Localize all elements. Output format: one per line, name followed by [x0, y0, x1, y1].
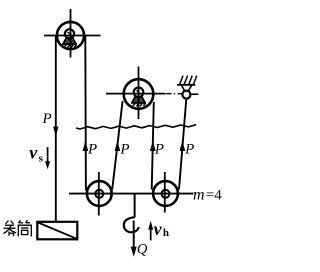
svg-text:v: v: [29, 142, 38, 162]
svg-text:P: P: [184, 142, 194, 158]
pulley D vertical centerline: [164, 172, 166, 213]
force P arrow on drum rope (down): [53, 127, 58, 137]
pulley C hub: [95, 190, 103, 198]
pulley A outer wheel (top-left fixed pulley): [57, 22, 84, 49]
wire: rope 2: [112, 101, 122, 190]
svg-text:P: P: [119, 142, 129, 158]
pulley A centerlines (top-left fixed pulley crosshair): [44, 9, 101, 58]
svg-text:h: h: [163, 227, 169, 239]
svg-text:P: P: [42, 111, 52, 127]
label Q: [137, 242, 148, 258]
tension arrow on rope 2 (up): [115, 141, 121, 152]
label m=4: [193, 186, 222, 203]
velocity v_h arrow: [148, 221, 153, 241]
pulley D outer wheel (bottom-right movable pulley): [153, 181, 178, 206]
label 卷 (hand-drawn strokes): [4, 221, 17, 237]
svg-text:Q: Q: [137, 242, 148, 258]
velocity v_s arrow: [45, 147, 50, 169]
tension arrow on rope 4 (up): [180, 141, 186, 152]
svg-text:P: P: [87, 142, 97, 158]
pulley B outer wheel (middle fixed pulley): [124, 79, 154, 109]
svg-text:=4: =4: [206, 187, 222, 203]
svg-text:P: P: [154, 142, 164, 158]
label P (rope 2): [119, 142, 129, 158]
label P (rope 3): [154, 142, 164, 158]
pulley B hub: [134, 88, 144, 98]
dash-dot centerline between pulley B and anchor: [166, 93, 183, 95]
winding drum rectangle: [37, 222, 77, 240]
tension arrow on rope 3 (up): [150, 141, 156, 152]
pulley B centerlines (middle fixed pulley crosshair): [106, 67, 165, 120]
anchor hatching (fixed support, top-right): [180, 76, 197, 85]
label P (rope 1): [87, 142, 97, 158]
wire: rope 3: [152, 102, 154, 190]
pulley C outer wheel (bottom-left movable pulley): [87, 181, 112, 206]
anchor right tick: [191, 93, 199, 95]
label 筒 (hand-drawn strokes): [18, 220, 31, 236]
wire: rope 4: [179, 99, 186, 190]
water surface wavy line: [76, 125, 196, 129]
svg-text:m: m: [193, 186, 205, 203]
svg-text:v: v: [154, 219, 163, 239]
force Q arrow: [131, 221, 137, 257]
hook hanger line: [134, 194, 136, 218]
hook: [124, 217, 139, 232]
anchor bar: [177, 84, 195, 86]
anchor eye circle: [182, 91, 190, 99]
label P (drum rope): [42, 111, 52, 127]
label P (rope 4): [184, 142, 194, 158]
label v_h: [154, 219, 169, 239]
pulley D hub: [162, 190, 170, 198]
wire: rope 1: [84, 36, 87, 191]
pulley C vertical centerline: [98, 172, 100, 216]
svg-text:s: s: [39, 152, 44, 164]
pulley B fixed-axle support symbol: [131, 96, 146, 106]
pulley A hub: [65, 29, 74, 38]
wire: drum rope (left fall): [55, 36, 57, 222]
pulley A fixed-axle support symbol: [62, 37, 77, 47]
label v_s: [29, 142, 43, 164]
anchor bracket: [181, 85, 192, 91]
tension arrow on rope 1 (up): [83, 141, 89, 152]
movable-block axle bar: [69, 193, 194, 195]
